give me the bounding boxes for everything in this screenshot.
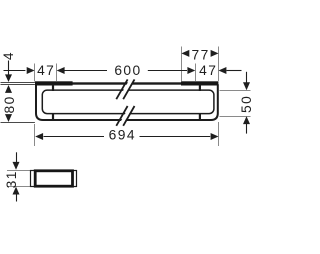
arrow 50 up [243,116,250,124]
outer outline of bar body [36,84,218,120]
arrow 77 right (right-pointing) [211,50,219,57]
svg-text:31: 31 [4,170,19,188]
50 dim ext lines (right) [220,90,251,92]
plan view thick rect [35,171,72,186]
left 47 ext line right [56,64,58,82]
svg-text:80: 80 [2,95,17,113]
dim 50 vertical lines [246,72,248,83]
77 ext line left [181,47,183,82]
dim 600 line [58,70,108,72]
arrow 77 left (left-pointing) [181,50,189,57]
extension lines (gray) [1,47,251,187]
arrow 4 down [5,74,12,82]
break slashes top [116,79,127,99]
svg-text:47: 47 [199,63,217,78]
right cap joint line top [199,85,201,92]
arrow 31 up [13,187,20,195]
4 dim ext lines (left) [1,82,35,84]
svg-text:50: 50 [239,95,254,113]
inner rounded rect (bar face) [42,90,214,114]
dim 4 vertical line [8,61,10,75]
arrow 50 down [243,82,250,90]
dim 694 line [44,136,105,138]
arrow 80 down [5,114,12,122]
break slashes bottom [116,106,127,126]
694 left ext line [34,124,36,146]
break mask top [118,80,134,100]
svg-text:600: 600 [114,63,141,78]
arrow 694 right (right-pointing) [211,133,219,140]
svg-text:77: 77 [191,47,209,62]
80 dim bottom ext line [1,122,35,124]
svg-text:47: 47 [37,63,55,78]
dim 31 vertical lines [16,152,18,163]
plan view thin rect [31,171,77,187]
arrow 694 left (left-pointing) [35,133,43,140]
arrow 47L right-pointing [27,67,35,74]
arrow 47R left-pointing [219,67,227,74]
left hook strip [35,81,73,85]
dim 47 left : leader [4,70,26,72]
left cap joint line top [52,85,54,92]
left 47 ext line left [34,64,36,82]
arrow 31 down [13,162,20,170]
break mask bottom [118,107,134,127]
arrow 600 left end (left-pointing) [57,67,65,74]
arrows [5,50,250,195]
left cap joint line bottom [52,113,54,119]
right 47 ext line left [195,64,197,82]
arrow 600 right end (right-pointing) [187,67,195,74]
right hook strip [181,81,218,85]
svg-text:4: 4 [1,51,16,60]
svg-text:694: 694 [109,128,136,143]
right cap joint line bottom [199,113,201,119]
77/47/694 shared right ext line [218,47,220,82]
rail line (4mm strip) between hooks [36,82,218,84]
arrow 80 up [5,85,12,93]
dim 47 right : leader [227,70,242,72]
31 dim ext lines (bottom-left view) [7,170,30,172]
